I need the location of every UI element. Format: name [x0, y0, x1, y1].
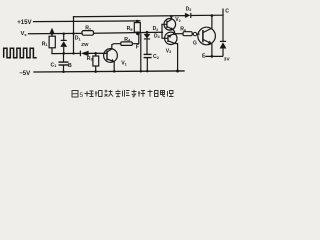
resistor R4	[121, 33, 139, 45]
junction dot V1 emitter/rail	[113, 70, 116, 73]
svg-text:D2: D2	[153, 26, 159, 32]
wire E line	[205, 55, 223, 57]
wire node B line left	[52, 52, 80, 54]
IGBT transistor	[198, 16, 216, 57]
svg-text:R5: R5	[127, 26, 133, 32]
transistor V3	[165, 32, 178, 71]
svg-text:F: F	[136, 44, 139, 50]
junction dot F/rail	[140, 70, 143, 73]
junction dot V3/rail	[176, 70, 179, 73]
junction dot node/C1	[62, 52, 65, 55]
diode D (vertical at x63.7)	[60, 34, 67, 54]
svg-text:C: C	[225, 9, 229, 15]
node C stub	[222, 9, 224, 42]
transistor V2	[164, 17, 176, 34]
capacitor C2	[144, 54, 152, 71]
wire gate	[197, 33, 200, 35]
svg-text:V3: V3	[166, 48, 171, 54]
wire top rail right	[191, 14, 223, 16]
wire top rail	[74, 16, 185, 17]
emitter arrowhead IGBT	[208, 41, 212, 44]
svg-text:R6: R6	[180, 27, 186, 33]
svg-text:C1: C1	[51, 62, 57, 68]
emitter arrowhead V1	[111, 59, 114, 62]
wire -5V rail	[34, 71, 184, 72]
capacitor C1	[59, 54, 69, 72]
svg-text:−5V: −5V	[19, 70, 31, 77]
gate terminal circle	[193, 32, 196, 35]
junction dot F node	[136, 31, 140, 35]
square wave input symbol	[4, 48, 37, 58]
svg-text:C2: C2	[153, 54, 159, 60]
wire +15V rail	[34, 20, 141, 23]
wire vertical from rails to node line	[73, 17, 75, 54]
resistor R2	[82, 31, 94, 36]
resistor R5	[134, 23, 140, 34]
svg-text:D3: D3	[186, 6, 192, 12]
diode D4 (vertical at x147)	[144, 32, 151, 54]
transistor V1	[104, 44, 121, 72]
caption 图5 增加软关断技术的电路 (drawn glyph blobs)	[72, 91, 84, 100]
junction dot C2/rail	[146, 70, 149, 73]
junction dot R5/+15V rail	[136, 20, 139, 23]
wire push-pull output to R6	[175, 33, 184, 35]
resistor R6	[183, 32, 193, 36]
emitter arrowhead V3	[168, 35, 171, 38]
wire node B line right	[89, 52, 107, 54]
svg-text:V1: V1	[121, 61, 127, 67]
svg-text:ZW: ZW	[81, 42, 89, 47]
junction dot node/R3	[94, 52, 97, 55]
svg-text:5: 5	[80, 92, 84, 99]
resistor R3	[93, 53, 99, 71]
junction dot D4/line	[146, 31, 149, 34]
wire Vs line left	[29, 32, 83, 34]
junction dot push-pull output	[173, 32, 176, 35]
emitter arrowhead V2	[170, 27, 173, 30]
svg-text:Vs: Vs	[21, 31, 28, 37]
zener diode D1 ZW	[80, 51, 88, 57]
svg-text:R3: R3	[87, 56, 93, 62]
wire Vs line middle	[94, 32, 163, 33]
junction dot R3/rail	[94, 70, 97, 73]
svg-text:3V: 3V	[224, 56, 231, 62]
wire F vertical	[140, 33, 142, 71]
svg-text:D1: D1	[75, 36, 81, 42]
svg-text:E: E	[202, 53, 206, 59]
junction dot collector/top rail	[211, 14, 214, 17]
svg-text:R1: R1	[42, 41, 48, 47]
junction dot Vs/vertical	[72, 32, 74, 34]
resistor R1	[49, 34, 55, 54]
junction dot node/vertical	[72, 52, 74, 54]
junction dot Vs/D	[62, 32, 64, 35]
svg-text:R4: R4	[124, 37, 131, 43]
svg-text:D4: D4	[154, 33, 160, 39]
svg-text:G: G	[193, 41, 197, 47]
diode D3	[185, 13, 191, 18]
diode across C-E (right)	[220, 41, 227, 56]
svg-text:V2: V2	[175, 17, 180, 23]
junction dot C1/rail	[62, 71, 65, 74]
junction dot Vs/R1	[51, 32, 54, 35]
svg-text:B: B	[68, 63, 72, 69]
svg-text:R2: R2	[85, 26, 91, 32]
wire push-pull base feed	[162, 24, 168, 38]
junction dot emitter/E line	[211, 55, 214, 58]
svg-text:+15V: +15V	[17, 19, 32, 26]
junction dot V2 collector/rail	[170, 15, 173, 18]
arrow on Vs line	[50, 28, 55, 34]
